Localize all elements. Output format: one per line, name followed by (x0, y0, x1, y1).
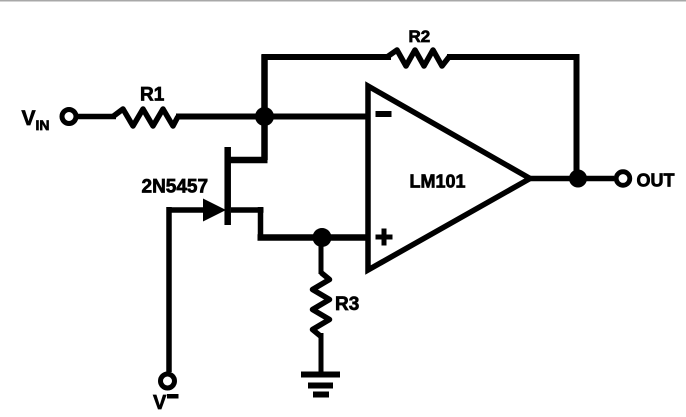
wire JFET drain horizontal (227, 157, 268, 164)
node A (junction dot at inverting input) (255, 107, 274, 126)
op-amp U1 LM101 triangle (368, 86, 530, 270)
svg-text:R2: R2 (409, 27, 431, 46)
wire JFET source vertical drop (258, 207, 264, 238)
resistor R3 (313, 273, 330, 337)
terminal OUT (616, 172, 630, 186)
node C (junction dot at output) (569, 170, 587, 188)
node B (junction dot at non-inverting input) (313, 228, 332, 247)
top scan edge line (0, 0, 686, 2)
wire op-amp output (528, 176, 614, 182)
op-amp U1 minus pin mark (376, 111, 392, 117)
svg-text:R1: R1 (140, 85, 165, 106)
wire node A up to feedback (261, 55, 268, 121)
wire VIN to R1 (78, 114, 116, 120)
wire source to plus node and op-amp plus input (258, 234, 369, 241)
wire node A down to JFET drain (261, 113, 268, 160)
transistor Q1 gate arrow (203, 199, 226, 222)
wire feedback top horizontal right segment (447, 54, 580, 60)
wire feedback right vertical down to output (574, 54, 580, 179)
transistor Q1 2N5457 channel bar (224, 147, 231, 225)
svg-text:V: V (153, 392, 167, 414)
wire R1 to inverting node and op-amp minus input (176, 114, 368, 120)
svg-text:2N5457: 2N5457 (142, 177, 209, 198)
op-amp U1 plus pin mark (376, 235, 393, 240)
wire feedback top horizontal left segment (262, 54, 392, 60)
wire node B down to R3 (319, 240, 324, 274)
wire JFET source horizontal (231, 207, 264, 213)
wire R3 to ground (319, 333, 324, 374)
svg-text:OUT: OUT (637, 171, 675, 191)
svg-text:LM101: LM101 (410, 172, 466, 192)
wire gate down to V- terminal (166, 207, 172, 372)
resistor R1 (113, 109, 178, 126)
svg-text:R3: R3 (335, 294, 359, 315)
terminal V- (161, 374, 175, 388)
terminal VIN (62, 110, 76, 124)
resistor R2 (387, 50, 449, 66)
wire gate horizontal (167, 207, 207, 213)
ground (301, 372, 340, 378)
